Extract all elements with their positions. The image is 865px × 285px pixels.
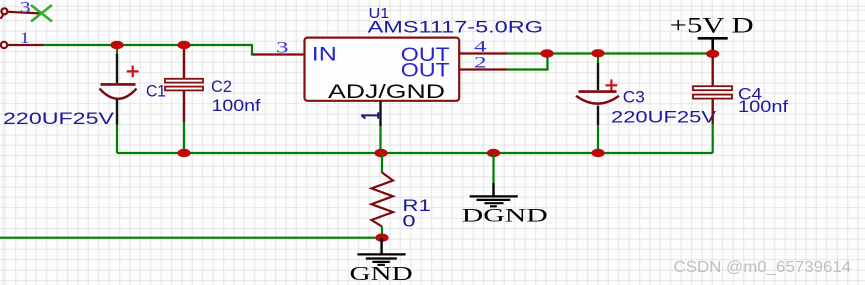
svg-text:2: 2	[474, 54, 487, 71]
svg-text:3: 3	[276, 39, 289, 56]
junction dot bottom node	[375, 234, 388, 242]
capacitor C1 lower lead (black)	[116, 100, 118, 125]
no-connect X	[31, 5, 52, 22]
svg-text:OUT: OUT	[401, 61, 450, 82]
svg-text:100nf: 100nf	[212, 96, 261, 115]
junction dot rail ADJ/R1	[374, 149, 387, 157]
wire: pin 2 up to net	[507, 54, 548, 70]
pin 2 stub	[459, 68, 507, 70]
wire: C1 to bottom rail	[116, 125, 118, 154]
svg-text:GND: GND	[350, 263, 413, 285]
junction dot at C1 top	[110, 41, 123, 49]
svg-text:0: 0	[402, 212, 415, 231]
pin 1 number (rotated)	[361, 112, 378, 118]
wire: bottom horizontal net	[0, 237, 382, 239]
junction dot rail C2	[177, 149, 190, 157]
power port +5V D bar	[698, 38, 728, 51]
capacitor C4 lower lead	[712, 99, 714, 124]
wire: C3 to bottom rail	[597, 125, 599, 153]
resistor R1 zigzag	[372, 173, 394, 227]
capacitor C4 plate 1	[693, 86, 732, 90]
wire: R1 to bottom node	[381, 227, 383, 238]
svg-text:AMS1117-5.0RG: AMS1117-5.0RG	[368, 18, 543, 37]
ground DGND bars	[470, 196, 518, 206]
capacitor C2 plate 1	[165, 79, 203, 83]
svg-text:3: 3	[20, 0, 31, 17]
svg-text:DGND: DGND	[462, 206, 548, 227]
capacitor C3 wire from dot	[597, 56, 599, 64]
pin 1 stub (ADJ/GND, black)	[379, 101, 381, 126]
capacitor C2 lower lead	[183, 91, 185, 122]
junction dot at C2 top	[177, 41, 190, 49]
svg-text:4: 4	[474, 39, 487, 56]
svg-text:CSDN @m0_65739614: CSDN @m0_65739614	[674, 259, 852, 276]
pin 3 wire	[7, 12, 42, 14]
capacitor C3 upper lead (black)	[597, 63, 599, 90]
wire: ADJ to bottom rail	[379, 126, 381, 153]
junction dot +5V	[706, 50, 719, 58]
svg-text:100nf: 100nf	[738, 97, 788, 116]
wire: bottom rail	[117, 152, 713, 154]
capacitor C4 plate 2	[693, 95, 732, 99]
junction dot rail C3	[591, 149, 604, 157]
pin 4 stub	[459, 52, 507, 54]
wire: top net to IN	[44, 45, 254, 55]
junction dot rail DGND	[487, 149, 500, 157]
capacitor C3 positive plate	[579, 90, 617, 93]
wire: pin 4 to +5V rail	[507, 52, 713, 54]
capacitor C1 upper lead (black)	[116, 45, 118, 55]
pin 3 circle	[1, 8, 7, 14]
connector body arc (clipped at left edge)	[1, 14, 4, 19]
svg-text:220UF25V: 220UF25V	[3, 109, 115, 128]
capacitor C3 lower lead (black)	[597, 106, 599, 126]
junction dot pin4/pin2 net	[540, 49, 553, 57]
capacitor C2 plate 2	[165, 87, 203, 91]
capacitor C3 negative plate (arc)	[576, 96, 619, 104]
pin 1 circle	[1, 42, 7, 48]
svg-text:220UF25V: 220UF25V	[611, 108, 717, 127]
wire: rail to R1	[381, 153, 383, 173]
capacitor C1 negative plate (arc)	[100, 89, 137, 99]
capacitor C1 plus sign	[127, 66, 139, 78]
capacitor C1 positive plate	[101, 83, 136, 86]
capacitor C3 plus sign	[606, 79, 618, 91]
svg-text:1: 1	[20, 30, 30, 47]
wire: rail to DGND	[492, 153, 494, 183]
op-amp U1 body	[305, 38, 460, 101]
svg-text:IN: IN	[312, 45, 337, 66]
capacitor C4 upper lead	[712, 56, 714, 86]
svg-text:C1: C1	[146, 82, 166, 101]
svg-text:C2: C2	[211, 77, 232, 96]
svg-text:ADJ/GND: ADJ/GND	[328, 82, 445, 103]
svg-text:C3: C3	[623, 88, 645, 107]
capacitor C2 upper lead	[183, 45, 185, 79]
wire: IN pin stub	[253, 53, 305, 55]
pin 1 wire (dark red)	[8, 44, 45, 46]
ground GND bars	[357, 254, 405, 264]
svg-text:+5V D: +5V D	[670, 13, 754, 38]
wire: C4 to bottom rail corner	[712, 124, 714, 153]
DGND lead (black)	[492, 183, 494, 196]
wire: C2 to bottom rail	[183, 122, 185, 153]
junction dot C3 top	[591, 49, 604, 57]
GND lead (black)	[380, 238, 382, 254]
